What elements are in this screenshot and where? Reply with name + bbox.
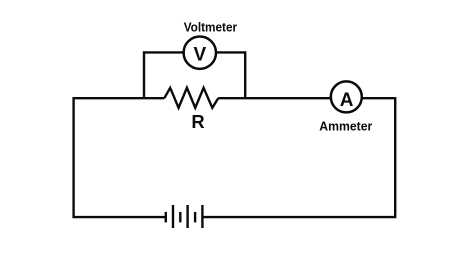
svg-text:Ammeter: Ammeter (319, 118, 372, 133)
resistor R (164, 88, 218, 108)
battery: long plate 1 (172, 205, 174, 228)
battery: long plate 2 (186, 205, 188, 228)
battery: short plate 3 (194, 212, 196, 223)
svg-text:R: R (191, 111, 204, 132)
wire: top-left segment, left side, bottom-left segment (74, 98, 166, 217)
wire: between resistor and ammeter (218, 97, 346, 99)
battery: long plate 3 (201, 205, 203, 228)
battery: short plate 2 (179, 212, 181, 223)
wire: voltmeter parallel loop (144, 52, 245, 99)
ammeter U2 circle (331, 81, 362, 112)
svg-text:A: A (340, 90, 354, 111)
battery: short plate 1 (165, 212, 167, 223)
wire: bottom-right segment, right side, top-right segment to ammeter (202, 98, 395, 217)
svg-text:Voltmeter: Voltmeter (184, 19, 237, 34)
voltmeter U1 circle (184, 37, 216, 69)
svg-text:V: V (193, 44, 206, 65)
